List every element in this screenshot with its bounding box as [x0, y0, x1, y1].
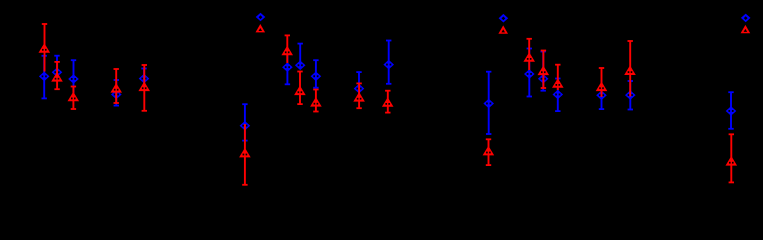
red triangle p2-2 [294, 86, 306, 96]
blue errorbar p3-4 [599, 80, 604, 110]
blue diamond p2-6 [483, 99, 494, 109]
red triangle p1-5 [138, 82, 150, 92]
blue errorbar p3-3 [555, 78, 560, 112]
blue diamond p1-2 [52, 68, 63, 78]
red errorbar p2-1 [285, 35, 290, 64]
blue diamond p3-3 [553, 90, 564, 100]
red errorbar p3-6 [729, 133, 734, 183]
blue errorbar p2-6 [486, 71, 491, 135]
legend diamond panel2 [499, 14, 509, 23]
blue diamond p2-1 [282, 62, 293, 72]
red errorbar p2-5 [385, 90, 390, 114]
blue diamond p3-4 [596, 91, 607, 101]
blue diamond p1-3 [68, 74, 79, 84]
blue diamond p1-4 [111, 90, 122, 100]
blue errorbar p3-5 [628, 80, 633, 110]
red triangle p1-4 [110, 83, 122, 93]
red errorbar p2-4 [356, 83, 361, 110]
blue errorbar p3-6 [728, 91, 733, 129]
red triangle p1-6 [239, 148, 251, 158]
red triangle p1-2 [51, 72, 63, 82]
red errorbar p1-6 [242, 124, 247, 186]
red triangle p3-5 [624, 65, 636, 75]
blue errorbar p2-5 [386, 40, 391, 85]
blue errorbar p1-3 [71, 59, 76, 94]
red errorbar p1-2 [54, 61, 59, 90]
blue errorbar p2-2 [298, 43, 303, 69]
red triangle p1-3 [68, 92, 80, 102]
legend triangle panel1 [256, 24, 266, 32]
blue diamond p3-5 [625, 90, 636, 100]
red errorbar p1-5 [142, 64, 147, 112]
red triangle p2-3 [310, 97, 322, 107]
blue diamond p1-1 [39, 72, 50, 82]
blue diamond p2-3 [311, 72, 322, 82]
red errorbar p3-2 [541, 50, 546, 89]
red triangle p3-2 [538, 66, 550, 76]
red errorbar p2-2 [297, 71, 302, 105]
blue diamond p1-6 [240, 121, 251, 131]
red triangle p3-1 [523, 52, 535, 62]
red triangle p3-4 [596, 82, 608, 92]
blue diamond p2-2 [295, 61, 306, 71]
blue errorbar p3-2 [541, 51, 546, 92]
blue diamond p1-5 [139, 74, 150, 84]
blue diamond p3-2 [538, 74, 549, 84]
red triangle p2-1 [281, 46, 293, 56]
red errorbar p3-5 [628, 40, 633, 96]
red errorbar p1-3 [71, 86, 76, 110]
red errorbar p1-4 [114, 68, 119, 104]
legend triangle panel2 [498, 25, 508, 33]
red errorbar p2-3 [313, 89, 318, 113]
red triangle p2-4 [353, 92, 365, 102]
blue errorbar p3-1 [527, 48, 532, 98]
blue errorbar p2-3 [313, 59, 318, 88]
red errorbar p1-1 [42, 23, 47, 71]
blue diamond p3-6 [726, 106, 737, 116]
blue errorbar p1-4 [114, 79, 119, 106]
blue diamond p3-1 [524, 69, 535, 79]
red triangle p2-5 [382, 97, 394, 107]
legend triangle panel3 [741, 25, 751, 33]
legend diamond panel1 [256, 13, 266, 22]
red errorbar p3-1 [527, 38, 532, 70]
red triangle p1-1 [39, 43, 51, 53]
red triangle p3-6 [726, 156, 738, 166]
red triangle p3-3 [552, 78, 564, 88]
legend diamond panel3 [741, 14, 751, 23]
blue diamond p2-5 [383, 60, 394, 70]
blue errorbar p1-6 [242, 103, 247, 141]
blue errorbar p1-2 [54, 55, 59, 80]
blue errorbar p2-1 [285, 55, 290, 85]
red errorbar p3-3 [555, 64, 560, 90]
red triangle p2-6 [483, 146, 495, 156]
blue diamond p2-4 [354, 84, 365, 94]
red errorbar p3-4 [599, 67, 604, 97]
blue errorbar p2-4 [356, 71, 361, 100]
blue errorbar p1-5 [141, 68, 146, 88]
blue errorbar p1-1 [42, 55, 47, 99]
red errorbar p2-6 [486, 138, 491, 166]
